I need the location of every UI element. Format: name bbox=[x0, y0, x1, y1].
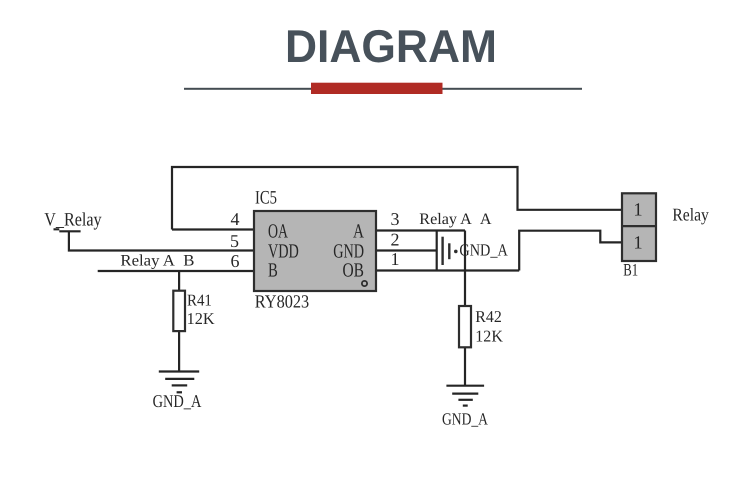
svg-text:IC5: IC5 bbox=[255, 188, 277, 209]
svg-text:Relay A A: Relay A A bbox=[419, 211, 492, 228]
terminal V_Relay bbox=[54, 229, 81, 231]
wire OA loop to relay pin 1 bbox=[172, 167, 621, 230]
wire R42 lower lead to ground bbox=[464, 347, 466, 385]
svg-text:DIAGRAM: DIAGRAM bbox=[285, 20, 497, 72]
svg-text:OA: OA bbox=[268, 220, 288, 242]
connector B1 divider bbox=[622, 225, 656, 227]
svg-text:GND_A: GND_A bbox=[459, 241, 508, 260]
pin marker circle of IC5 bbox=[362, 281, 367, 286]
svg-text:GND_A: GND_A bbox=[442, 409, 489, 428]
svg-text:B1: B1 bbox=[623, 259, 638, 279]
wire GND_A net to relay pin 2 bbox=[519, 231, 621, 271]
wire pin 6 B net Relay A B bbox=[98, 270, 254, 272]
svg-text:4: 4 bbox=[231, 209, 240, 229]
svg-text:1: 1 bbox=[391, 249, 400, 269]
divider line bbox=[184, 88, 582, 90]
wire net A down to R42 bbox=[464, 231, 466, 307]
svg-text:GND_A: GND_A bbox=[153, 391, 202, 411]
svg-text:OB: OB bbox=[343, 260, 364, 282]
svg-text:1: 1 bbox=[633, 233, 642, 253]
svg-text:12K: 12K bbox=[475, 326, 503, 345]
resistor R42 body bbox=[459, 306, 471, 347]
capacitor polarity dot bbox=[454, 250, 458, 254]
svg-text:5: 5 bbox=[230, 231, 239, 251]
wire R41 lower lead to ground bbox=[178, 331, 180, 371]
svg-text:A: A bbox=[353, 220, 364, 242]
ground GND_A under R42 bbox=[446, 386, 484, 406]
svg-text:1: 1 bbox=[633, 201, 642, 221]
wire R41 upper lead bbox=[178, 271, 180, 291]
svg-text:R41: R41 bbox=[187, 290, 212, 309]
wire pin 3 A net Relay A A bbox=[376, 229, 465, 231]
IC U body IC5 bbox=[254, 211, 376, 291]
wire pin 1 OB to GND_A net bbox=[376, 269, 519, 271]
svg-text:R42: R42 bbox=[475, 307, 501, 326]
wire pin 4 OA bbox=[172, 228, 254, 230]
resistor R41 body bbox=[173, 291, 185, 331]
divider red bar bbox=[311, 83, 443, 94]
svg-text:Relay A B: Relay A B bbox=[120, 253, 194, 270]
svg-text:Relay: Relay bbox=[672, 204, 708, 224]
wire pin 5 VDD from V_Relay bbox=[69, 231, 254, 251]
svg-text:B: B bbox=[268, 260, 278, 282]
svg-text:2: 2 bbox=[391, 230, 400, 250]
capacitor plates bbox=[443, 237, 450, 265]
connector B1 body bbox=[622, 193, 656, 261]
ground GND_A under R41 bbox=[159, 372, 199, 393]
wire pin 2 GND bbox=[376, 249, 437, 251]
svg-text:RY8023: RY8023 bbox=[255, 293, 309, 313]
svg-text:12K: 12K bbox=[187, 309, 215, 328]
svg-text:6: 6 bbox=[231, 251, 240, 271]
wire capacitor left lead bbox=[436, 231, 438, 271]
svg-text:V_Relay: V_Relay bbox=[44, 210, 102, 231]
svg-text:3: 3 bbox=[391, 209, 400, 229]
